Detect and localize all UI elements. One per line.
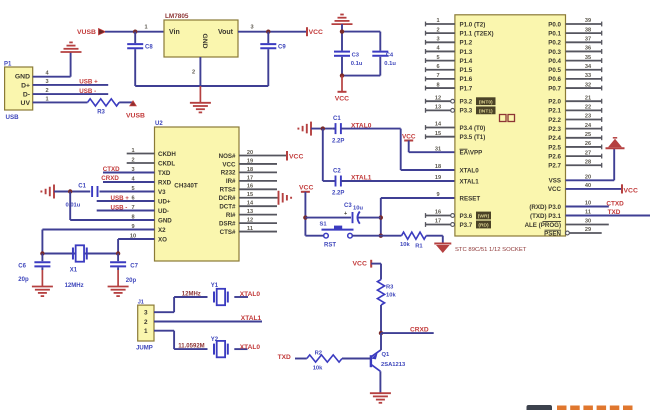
svg-text:XTAL1: XTAL1 bbox=[351, 175, 372, 182]
svg-text:2: 2 bbox=[192, 70, 195, 76]
svg-text:20p: 20p bbox=[18, 277, 29, 283]
svg-text:13: 13 bbox=[247, 209, 253, 215]
svg-text:STC 89C/51 1/12 SOCKET: STC 89C/51 1/12 SOCKET bbox=[455, 247, 527, 253]
svg-text:6: 6 bbox=[131, 195, 134, 201]
svg-text:R3: R3 bbox=[386, 285, 394, 291]
svg-text:XTAL0: XTAL0 bbox=[460, 167, 480, 174]
svg-text:P1: P1 bbox=[4, 62, 12, 68]
svg-text:18: 18 bbox=[435, 164, 441, 170]
svg-text:RI#: RI# bbox=[226, 212, 236, 219]
svg-text:15: 15 bbox=[247, 192, 253, 198]
svg-text:11.0592M: 11.0592M bbox=[178, 344, 204, 350]
svg-text:P0.7: P0.7 bbox=[548, 85, 561, 92]
svg-text:12MHz: 12MHz bbox=[182, 291, 201, 297]
svg-text:16: 16 bbox=[247, 184, 253, 190]
svg-text:P0.0: P0.0 bbox=[548, 21, 561, 28]
svg-text:VCC: VCC bbox=[222, 161, 236, 168]
svg-text:U2: U2 bbox=[155, 121, 163, 127]
svg-text:2SA1213: 2SA1213 bbox=[381, 362, 406, 368]
svg-text:P3.3: P3.3 bbox=[460, 108, 473, 115]
svg-text:P3.2: P3.2 bbox=[460, 99, 473, 106]
svg-text:1: 1 bbox=[144, 328, 148, 335]
svg-text:VUSB: VUSB bbox=[126, 113, 145, 120]
svg-text:RXD: RXD bbox=[158, 179, 172, 186]
svg-text:0.01u: 0.01u bbox=[66, 203, 81, 209]
svg-text:UD+: UD+ bbox=[158, 198, 171, 205]
svg-text:P1.3: P1.3 bbox=[460, 49, 473, 56]
svg-text:10: 10 bbox=[130, 233, 136, 239]
svg-text:31: 31 bbox=[435, 146, 441, 152]
svg-text:XTAL0: XTAL0 bbox=[240, 344, 261, 351]
svg-text:PSEN: PSEN bbox=[544, 230, 561, 237]
svg-text:P1.0 (T2): P1.0 (T2) bbox=[460, 21, 486, 28]
svg-text:C6: C6 bbox=[18, 264, 26, 270]
svg-text:2: 2 bbox=[45, 88, 48, 94]
svg-text:DCT#: DCT# bbox=[219, 204, 236, 211]
svg-text:UV: UV bbox=[21, 100, 31, 107]
svg-text:D+: D+ bbox=[21, 82, 30, 89]
svg-text:1: 1 bbox=[131, 148, 134, 154]
svg-text:19: 19 bbox=[247, 158, 253, 164]
svg-text:P0.1: P0.1 bbox=[548, 30, 561, 37]
svg-text:C1: C1 bbox=[333, 116, 341, 122]
svg-text:V3: V3 bbox=[158, 189, 166, 196]
svg-text:3: 3 bbox=[144, 310, 148, 317]
svg-text:XTAL0: XTAL0 bbox=[351, 122, 372, 129]
svg-text:(RD): (RD) bbox=[478, 223, 489, 229]
svg-text:C3: C3 bbox=[352, 53, 360, 59]
svg-text:20: 20 bbox=[247, 150, 253, 156]
svg-text:USB: USB bbox=[6, 114, 20, 121]
svg-text:2.2P: 2.2P bbox=[332, 191, 344, 197]
svg-text:5: 5 bbox=[131, 186, 134, 192]
svg-text:CRXD: CRXD bbox=[101, 175, 119, 182]
svg-text:CTS#: CTS# bbox=[220, 229, 236, 236]
svg-text:CTXD: CTXD bbox=[103, 166, 120, 173]
svg-text:C3: C3 bbox=[344, 203, 352, 209]
svg-text:Q1: Q1 bbox=[382, 352, 391, 358]
svg-text:(TXD) P3.1: (TXD) P3.1 bbox=[530, 213, 562, 220]
svg-text:9: 9 bbox=[436, 192, 439, 198]
svg-text:RESET: RESET bbox=[460, 195, 481, 202]
svg-text:P1.6: P1.6 bbox=[460, 76, 473, 83]
svg-text:C1: C1 bbox=[78, 184, 86, 190]
svg-text:20p: 20p bbox=[126, 278, 137, 284]
svg-text:R1: R1 bbox=[415, 243, 423, 249]
svg-text:R2: R2 bbox=[315, 351, 322, 357]
svg-text:C4: C4 bbox=[386, 53, 394, 59]
svg-text:XTAL1: XTAL1 bbox=[460, 178, 480, 185]
svg-text:ALE (PROG): ALE (PROG) bbox=[525, 222, 561, 229]
svg-text:LM7805: LM7805 bbox=[165, 13, 189, 20]
svg-text:10k: 10k bbox=[313, 366, 323, 372]
svg-text:P2.7: P2.7 bbox=[548, 163, 561, 170]
svg-text:USB +: USB + bbox=[79, 79, 98, 86]
svg-text:3: 3 bbox=[45, 79, 48, 85]
svg-text:P1.2: P1.2 bbox=[460, 40, 473, 47]
svg-text:CH340T: CH340T bbox=[174, 183, 198, 190]
svg-text:P3.5 (T1): P3.5 (T1) bbox=[460, 134, 486, 141]
svg-text:18: 18 bbox=[247, 167, 253, 173]
svg-text:JUMP: JUMP bbox=[136, 346, 153, 352]
svg-text:P3.6: P3.6 bbox=[460, 213, 473, 220]
svg-text:RST: RST bbox=[324, 242, 336, 248]
svg-text:DSR#: DSR# bbox=[219, 220, 236, 227]
svg-text:2.2P: 2.2P bbox=[332, 139, 344, 145]
svg-text:P2.4: P2.4 bbox=[548, 135, 561, 142]
svg-text:P0.3: P0.3 bbox=[548, 49, 561, 56]
svg-text:VSS: VSS bbox=[549, 178, 561, 185]
svg-text:0.1u: 0.1u bbox=[384, 61, 396, 67]
svg-text:Y2: Y2 bbox=[211, 337, 219, 343]
svg-text:X1: X1 bbox=[70, 268, 78, 274]
svg-text:P1.1 (T2EX): P1.1 (T2EX) bbox=[460, 30, 494, 37]
svg-text:RTS#: RTS# bbox=[220, 187, 236, 194]
svg-text:CRXD: CRXD bbox=[410, 327, 429, 334]
svg-text:VCC: VCC bbox=[548, 186, 562, 193]
svg-text:P3.7: P3.7 bbox=[460, 222, 473, 229]
svg-text:J1: J1 bbox=[138, 300, 144, 306]
svg-text:0.1u: 0.1u bbox=[351, 61, 363, 67]
svg-text:TXD: TXD bbox=[608, 209, 621, 216]
svg-text:12MHz: 12MHz bbox=[65, 283, 84, 289]
svg-text:Y1: Y1 bbox=[211, 283, 219, 289]
svg-text:TXD: TXD bbox=[158, 170, 171, 177]
svg-text:2: 2 bbox=[144, 319, 148, 326]
svg-text:2: 2 bbox=[131, 157, 134, 163]
svg-text:C8: C8 bbox=[145, 45, 153, 51]
svg-text:P2.1: P2.1 bbox=[548, 108, 561, 115]
svg-text:P0.5: P0.5 bbox=[548, 67, 561, 74]
svg-text:UD-: UD- bbox=[158, 208, 169, 215]
svg-text:+: + bbox=[344, 211, 347, 217]
svg-text:NOS#: NOS# bbox=[219, 153, 236, 160]
svg-text:VCC: VCC bbox=[309, 29, 323, 36]
svg-text:10k: 10k bbox=[386, 293, 396, 299]
svg-text:R3: R3 bbox=[97, 110, 105, 116]
svg-text:17: 17 bbox=[247, 175, 253, 181]
svg-text:VCC: VCC bbox=[335, 96, 349, 103]
svg-text:P1.5: P1.5 bbox=[460, 67, 473, 74]
svg-text:GND: GND bbox=[15, 74, 30, 81]
svg-text:USB -: USB - bbox=[111, 205, 128, 212]
svg-text:P2.0: P2.0 bbox=[548, 99, 561, 106]
svg-text:P0.2: P0.2 bbox=[548, 40, 561, 47]
svg-text:XO: XO bbox=[158, 236, 167, 243]
svg-text:P2.6: P2.6 bbox=[548, 153, 561, 160]
svg-text:CTXD: CTXD bbox=[606, 200, 624, 207]
svg-text:DCR#: DCR# bbox=[219, 195, 236, 202]
svg-text:8: 8 bbox=[131, 214, 134, 220]
svg-text:S1: S1 bbox=[320, 221, 328, 227]
svg-text:7: 7 bbox=[131, 205, 134, 211]
svg-text:10u: 10u bbox=[353, 206, 363, 212]
svg-text:XTAL1: XTAL1 bbox=[241, 315, 262, 322]
svg-text:Vin: Vin bbox=[169, 29, 180, 36]
svg-text:VCC: VCC bbox=[289, 154, 303, 161]
svg-text:P2.3: P2.3 bbox=[548, 126, 561, 133]
svg-text:X2: X2 bbox=[158, 227, 166, 234]
svg-text:C9: C9 bbox=[278, 45, 286, 51]
svg-text:USB -: USB - bbox=[79, 88, 96, 95]
svg-text:P1.7: P1.7 bbox=[460, 85, 473, 92]
svg-text:R232: R232 bbox=[221, 170, 236, 177]
svg-text:P0.6: P0.6 bbox=[548, 76, 561, 83]
svg-text:P3.4 (T0): P3.4 (T0) bbox=[460, 125, 486, 132]
svg-text:VCC: VCC bbox=[402, 134, 416, 141]
svg-text:9: 9 bbox=[131, 224, 134, 230]
svg-text:P0.4: P0.4 bbox=[548, 58, 561, 65]
svg-text:1: 1 bbox=[45, 97, 48, 103]
svg-text:VCC: VCC bbox=[353, 260, 367, 267]
svg-text:XTAL0: XTAL0 bbox=[240, 291, 261, 298]
svg-text:3: 3 bbox=[250, 25, 253, 31]
svg-text:1: 1 bbox=[144, 25, 147, 31]
svg-text:3: 3 bbox=[131, 167, 134, 173]
svg-text:VCC: VCC bbox=[299, 185, 313, 192]
svg-text:(INT1): (INT1) bbox=[479, 109, 493, 115]
svg-text:19: 19 bbox=[435, 175, 441, 181]
svg-text:Vout: Vout bbox=[218, 29, 234, 36]
svg-text:C2: C2 bbox=[333, 169, 341, 175]
svg-text:(INT0): (INT0) bbox=[479, 99, 493, 105]
svg-text:VUSB: VUSB bbox=[77, 29, 96, 36]
svg-text:P1.4: P1.4 bbox=[460, 58, 473, 65]
svg-text:USB +: USB + bbox=[111, 195, 130, 202]
svg-text:P2.2: P2.2 bbox=[548, 117, 561, 124]
svg-text:EA\VPP: EA\VPP bbox=[460, 150, 483, 157]
svg-text:11: 11 bbox=[247, 226, 253, 232]
svg-text:TXD: TXD bbox=[278, 354, 291, 361]
svg-text:C7: C7 bbox=[130, 264, 138, 270]
svg-text:CKDH: CKDH bbox=[158, 151, 176, 158]
svg-text:D-: D- bbox=[23, 92, 30, 99]
svg-text:P2.5: P2.5 bbox=[548, 144, 561, 151]
svg-text:14: 14 bbox=[247, 201, 254, 207]
svg-text:12: 12 bbox=[247, 218, 253, 224]
svg-text:VCC: VCC bbox=[624, 187, 638, 194]
svg-text:GND: GND bbox=[158, 217, 172, 224]
svg-text:10k: 10k bbox=[400, 242, 410, 248]
svg-text:(RXD) P3.0: (RXD) P3.0 bbox=[529, 204, 561, 211]
svg-text:CKDL: CKDL bbox=[158, 160, 175, 167]
svg-text:IR#: IR# bbox=[226, 178, 236, 185]
svg-text:(WR): (WR) bbox=[478, 214, 490, 220]
svg-text:GND: GND bbox=[201, 33, 208, 48]
